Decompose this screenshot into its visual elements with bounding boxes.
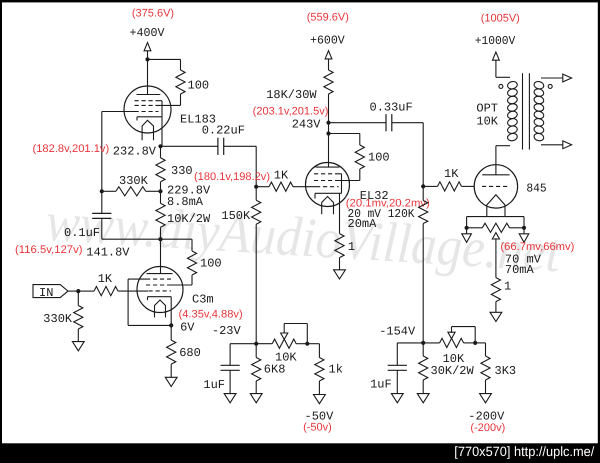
node 229.8V bbox=[158, 189, 162, 193]
svg-text:1uF: 1uF bbox=[370, 378, 392, 392]
svg-text:20mA: 20mA bbox=[348, 217, 378, 231]
transformer OPT primary winding bbox=[496, 77, 518, 145]
label 1K (845 grid) bbox=[444, 167, 459, 181]
wire to R100c bbox=[329, 134, 360, 146]
label (-50v) bbox=[303, 422, 332, 434]
svg-text:1K: 1K bbox=[444, 167, 459, 181]
wire +400V down bbox=[147, 51, 149, 60]
wire +1000V down bbox=[495, 60, 497, 77]
tube 845 envelope bbox=[474, 165, 517, 208]
power +1000V arrow bbox=[493, 52, 500, 60]
capacitor 1uF left bbox=[221, 365, 240, 393]
tube C3m g3 tie to cathode bbox=[128, 279, 171, 325]
power +600V arrow bbox=[325, 51, 332, 59]
svg-text:70mA: 70mA bbox=[505, 263, 535, 277]
resistor 3K3 bbox=[475, 343, 490, 394]
label 1K (input) bbox=[98, 272, 113, 286]
wire 243V to 0.33uF bbox=[329, 122, 387, 124]
label 330 bbox=[171, 164, 193, 178]
svg-text:1: 1 bbox=[348, 240, 355, 254]
tube 845 plate bbox=[482, 174, 509, 176]
potentiometer 10K bias left bbox=[256, 339, 307, 348]
resistor 1 845 cathode bbox=[491, 278, 500, 313]
label 6V bbox=[180, 320, 195, 334]
potentiometer 10K bias right bbox=[423, 338, 475, 347]
tube EL32 grid g3 bbox=[314, 173, 342, 175]
tube EL32 grid g2 bbox=[314, 180, 339, 182]
svg-text:(4.35v,4.88v): (4.35v,4.88v) bbox=[179, 308, 243, 320]
label 845 bbox=[526, 182, 546, 196]
tube EL32 cathode bbox=[315, 193, 342, 198]
svg-text:(-50v): (-50v) bbox=[303, 422, 332, 434]
svg-text:(203.1v,201.5v): (203.1v,201.5v) bbox=[253, 105, 329, 117]
ground 1k bbox=[314, 395, 326, 404]
label 10K (OPT) bbox=[476, 115, 498, 129]
svg-text:1: 1 bbox=[504, 280, 511, 294]
wire IN to node bbox=[68, 290, 78, 292]
label 0.22uF bbox=[202, 124, 245, 138]
label 10K (right pot) bbox=[443, 352, 465, 366]
svg-text:845: 845 bbox=[526, 182, 546, 196]
ground 30K/2W bbox=[417, 394, 429, 403]
svg-text:6K8: 6K8 bbox=[264, 363, 286, 377]
label 1 (845 cathode) bbox=[504, 280, 511, 294]
label (66.7mv,66mv) bbox=[500, 241, 574, 253]
tube EL32 envelope bbox=[306, 163, 350, 207]
wire 0.33uF to 845 grid rail bbox=[392, 123, 423, 187]
label 1 (EL32 cathode) bbox=[348, 240, 355, 254]
tube EL183 grid g1 bbox=[135, 111, 159, 113]
label 10K/2W bbox=[167, 212, 211, 226]
output arrow top bbox=[563, 74, 572, 82]
label +400V bbox=[130, 26, 166, 40]
footer black bar bbox=[0, 443, 600, 463]
svg-text:232.8V: 232.8V bbox=[113, 144, 157, 158]
svg-text:(182.8v,201.1v): (182.8v,201.1v) bbox=[33, 143, 110, 155]
node EL32 screen junction bbox=[326, 131, 330, 135]
label -23V bbox=[212, 324, 242, 338]
svg-text:141.8V: 141.8V bbox=[86, 245, 130, 259]
svg-text:-23V: -23V bbox=[212, 324, 242, 338]
node +400V junction bbox=[145, 57, 149, 61]
tube EL32 g3-cathode tie bbox=[341, 174, 343, 194]
wire EL183 grid to rail bbox=[102, 111, 136, 113]
svg-text:100: 100 bbox=[200, 257, 222, 271]
resistor 150K bbox=[252, 187, 261, 225]
label 100 (EL32 screen) bbox=[368, 151, 390, 165]
wire EL32 cathode down bbox=[339, 193, 341, 233]
tube EL183 cathode bbox=[137, 117, 162, 121]
svg-text:(1005V): (1005V) bbox=[481, 12, 520, 24]
connector IN bbox=[33, 285, 68, 298]
border frame top bbox=[0, 0, 600, 2]
wire EL183 plate lead bbox=[147, 59, 149, 94]
label 330K (input) bbox=[43, 312, 73, 326]
tube C3m cathode bbox=[148, 297, 172, 301]
svg-text:0.33uF: 0.33uF bbox=[370, 101, 413, 115]
label 1uF (right) bbox=[370, 378, 392, 392]
svg-text:8.8mA: 8.8mA bbox=[167, 195, 204, 209]
capacitor 0.33uF bbox=[386, 114, 392, 131]
tube C3m envelope bbox=[137, 267, 183, 313]
resistor 30K/2W bbox=[419, 343, 428, 394]
svg-text:100: 100 bbox=[368, 151, 390, 165]
svg-text:0.22uF: 0.22uF bbox=[202, 124, 245, 138]
label (180.1v,198.2v) bbox=[194, 171, 270, 183]
label 1k bbox=[329, 363, 343, 377]
wire +400V to R100a bbox=[148, 59, 181, 70]
svg-text:3K3: 3K3 bbox=[495, 364, 517, 378]
tube EL183 envelope bbox=[124, 86, 171, 133]
node filament left bbox=[465, 226, 469, 230]
label (375.6V) bbox=[132, 8, 174, 20]
label 20 mV 120K bbox=[348, 207, 416, 221]
svg-text:(559.6V): (559.6V) bbox=[307, 12, 349, 24]
label IN bbox=[39, 286, 53, 300]
label 680 bbox=[179, 346, 201, 360]
resistor 1K input bbox=[78, 287, 148, 296]
label EL183 bbox=[180, 112, 216, 126]
svg-text:30K/2W: 30K/2W bbox=[431, 364, 475, 378]
ground input bbox=[72, 342, 84, 351]
svg-text:10K: 10K bbox=[443, 352, 465, 366]
capacitor 1uF right bbox=[388, 365, 407, 393]
transformer OPT secondary winding bbox=[533, 78, 563, 145]
label 0.1uF bbox=[64, 226, 100, 240]
svg-text:1K: 1K bbox=[98, 272, 113, 286]
svg-text:-154V: -154V bbox=[379, 325, 416, 339]
wire 0.1uF to plate node bbox=[102, 238, 161, 240]
svg-text:+1000V: +1000V bbox=[475, 34, 516, 48]
watermark www.diyAudioVillage.net bbox=[44, 191, 563, 284]
label 18K/30W bbox=[266, 88, 317, 102]
node pot left out bbox=[305, 342, 309, 346]
label 8.8mA bbox=[167, 195, 204, 209]
svg-text:+400V: +400V bbox=[130, 26, 166, 40]
power +400V arrow bbox=[144, 43, 151, 51]
wire EL183 cathode down bbox=[161, 117, 163, 147]
wire 120K to -154V node bbox=[422, 224, 424, 343]
ground EL32 cathode bbox=[334, 270, 346, 279]
resistor 1 EL32 cathode bbox=[335, 234, 344, 270]
wire 18K to plate bbox=[328, 94, 330, 167]
tube EL183 grid g2 bbox=[135, 104, 159, 106]
resistor 330 bbox=[156, 146, 165, 191]
svg-text:330K: 330K bbox=[43, 312, 73, 326]
svg-text:[770x570] http://uplc.me/: [770x570] http://uplc.me/ bbox=[454, 444, 594, 459]
wire 232.8V to cap bbox=[161, 145, 218, 147]
label +1000V bbox=[475, 34, 516, 48]
wire -154V to 1uF bbox=[397, 343, 423, 365]
svg-text:OPT: OPT bbox=[476, 102, 498, 116]
label (-200v) bbox=[470, 422, 505, 434]
label 243V bbox=[292, 117, 322, 131]
label 30K/2W bbox=[431, 364, 475, 378]
wire filament bus bbox=[467, 217, 524, 228]
label (182.8v,201.1v) bbox=[33, 143, 110, 155]
node 232.8V bbox=[158, 144, 162, 148]
footer caption text bbox=[454, 444, 594, 459]
tube EL183 g3-cathode tie bbox=[161, 101, 163, 117]
tube EL183 plate bbox=[137, 94, 161, 96]
svg-text:(375.6V): (375.6V) bbox=[132, 8, 174, 20]
wire OPT to 845 plate bbox=[495, 146, 497, 175]
filament supply arrow right bbox=[519, 228, 529, 243]
label 141.8V bbox=[86, 245, 130, 259]
tube 845 grid bbox=[482, 185, 510, 187]
label (116.5v,127v) bbox=[15, 244, 83, 256]
capacitor 0.22uF bbox=[218, 138, 224, 155]
label 330K (feedback) bbox=[119, 174, 149, 188]
transformer OPT phase dot primary bbox=[499, 84, 503, 88]
wire cap to grid node bbox=[224, 145, 257, 147]
svg-text:(116.5v,127v): (116.5v,127v) bbox=[15, 244, 83, 256]
label -200V bbox=[468, 409, 505, 423]
tube C3m plate bbox=[147, 273, 173, 275]
tube EL32 plate bbox=[316, 166, 340, 168]
svg-text:10K/2W: 10K/2W bbox=[167, 212, 211, 226]
border frame left bbox=[0, 0, 2, 463]
svg-text:680: 680 bbox=[179, 346, 201, 360]
capacitor 0.1uF bbox=[92, 191, 111, 239]
node -154V bbox=[421, 341, 425, 345]
pot hum wiper arrow bbox=[492, 233, 499, 278]
label 150K bbox=[221, 209, 251, 223]
tube EL32 grid g1 bbox=[316, 186, 339, 188]
wire -23V to 1uF bbox=[230, 344, 256, 366]
svg-text:6V: 6V bbox=[180, 320, 195, 334]
resistor 330K feedback bbox=[102, 187, 161, 196]
wire C3m cathode down bbox=[170, 297, 172, 326]
resistor 330K input bbox=[74, 291, 83, 342]
ground 1uF left bbox=[224, 394, 236, 403]
wire plate node to R100b bbox=[161, 239, 193, 251]
label OPT bbox=[476, 102, 498, 116]
label 100 (C3m screen) bbox=[200, 257, 222, 271]
svg-text:1uF: 1uF bbox=[203, 378, 225, 392]
ground 3K3 bbox=[480, 394, 492, 403]
svg-text:330: 330 bbox=[171, 164, 193, 178]
label (4.35v,4.88v) bbox=[179, 308, 243, 320]
svg-text:(180.1v,198.2v): (180.1v,198.2v) bbox=[194, 171, 270, 183]
ground 845 cathode bbox=[490, 312, 502, 321]
tube EL32 heater bbox=[322, 197, 334, 215]
svg-text:10K: 10K bbox=[476, 115, 498, 129]
node filament right bbox=[522, 226, 526, 230]
label 232.8V bbox=[113, 144, 157, 158]
label (1005V) bbox=[481, 12, 520, 24]
label -50V bbox=[305, 410, 335, 424]
resistor 1k bleeder bbox=[307, 344, 324, 395]
node 243V cap junction bbox=[326, 121, 330, 125]
wire 150K to -23V node bbox=[255, 224, 257, 344]
ground 1uF right bbox=[391, 394, 403, 403]
transformer OPT phase dot secondary bbox=[548, 84, 552, 88]
label 3K3 bbox=[495, 364, 517, 378]
label (20.1mv,20.2mv) bbox=[346, 197, 430, 209]
ground 6K8 bbox=[250, 394, 262, 403]
resistor R100c (100) EL32 screen bbox=[339, 145, 365, 181]
label +600V bbox=[310, 33, 345, 47]
svg-text:+600V: +600V bbox=[310, 33, 345, 47]
node pot right out bbox=[473, 341, 477, 345]
wire +600V down bbox=[328, 59, 330, 70]
resistor 10K/2W bbox=[156, 191, 165, 239]
svg-text:18K/30W: 18K/30W bbox=[266, 88, 317, 102]
tube 845 filament bbox=[487, 195, 505, 217]
label (559.6V) bbox=[307, 12, 349, 24]
label 70mA bbox=[505, 263, 535, 277]
resistor R100b (100) C3m screen bbox=[171, 251, 197, 285]
tube EL183 grid g3 bbox=[135, 100, 163, 102]
label 0.33uF bbox=[370, 101, 413, 115]
pot 10K right wiper bbox=[448, 327, 475, 343]
pot 10K left wiper bbox=[281, 324, 308, 344]
resistor 6K8 bbox=[252, 344, 261, 394]
resistor 1K EL32 grid bbox=[256, 182, 316, 191]
resistor 680 bbox=[167, 325, 176, 377]
svg-text:IN: IN bbox=[39, 286, 53, 300]
node C3m plate bbox=[158, 237, 162, 241]
output arrow bottom bbox=[563, 141, 572, 149]
svg-text:100: 100 bbox=[188, 79, 210, 93]
wire C3m plate lead bbox=[160, 239, 162, 273]
ground C3m cathode bbox=[165, 377, 177, 386]
label 6K8 bbox=[264, 363, 286, 377]
node EL32 grid bbox=[254, 185, 258, 189]
node input bbox=[76, 289, 80, 293]
border frame right bbox=[598, 0, 600, 463]
label 1uF (left) bbox=[203, 378, 225, 392]
label 100 (EL183 screen) bbox=[188, 79, 210, 93]
resistor R100a (100) EL183 screen bbox=[176, 70, 185, 94]
wire R100a to g2 bbox=[159, 94, 181, 105]
tube C3m heater bbox=[155, 300, 166, 317]
svg-text:10K: 10K bbox=[275, 350, 297, 364]
node 845 grid bbox=[421, 184, 425, 188]
label EL32 bbox=[360, 189, 389, 203]
node -23V bbox=[254, 342, 258, 346]
svg-text:(-200v): (-200v) bbox=[470, 422, 505, 434]
label 229.8V bbox=[167, 184, 211, 198]
label 1K (EL32 grid) bbox=[274, 169, 289, 183]
svg-text:330K: 330K bbox=[119, 174, 149, 188]
transformer OPT core bbox=[523, 73, 530, 149]
svg-text:243V: 243V bbox=[292, 117, 322, 131]
svg-text:1k: 1k bbox=[329, 363, 343, 377]
tube EL183 heater bbox=[142, 120, 153, 140]
svg-text:0.1uF: 0.1uF bbox=[64, 226, 100, 240]
resistor 120K bbox=[419, 186, 428, 223]
label 20mA bbox=[348, 217, 378, 231]
label C3m bbox=[192, 293, 214, 307]
svg-text:(66.7mv,66mv): (66.7mv,66mv) bbox=[500, 241, 574, 253]
resistor 1K 845 grid bbox=[423, 182, 474, 191]
potentiometer hum balance bbox=[467, 223, 524, 232]
label 70 mV bbox=[505, 253, 542, 267]
wire grid rail down bbox=[101, 112, 103, 192]
svg-text:C3m: C3m bbox=[192, 293, 214, 307]
resistor 18K/30W bbox=[324, 70, 333, 94]
svg-text:150K: 150K bbox=[221, 209, 251, 223]
filament supply arrow left bbox=[462, 228, 472, 243]
wire 0.22uF down to grid node bbox=[255, 146, 257, 186]
svg-text:1K: 1K bbox=[274, 169, 289, 183]
label -154V bbox=[379, 325, 416, 339]
node grid rail 330K bbox=[100, 189, 104, 193]
label 10K (left pot) bbox=[275, 350, 297, 364]
label (203.1v,201.5v) bbox=[253, 105, 329, 117]
tube C3m grid g3 bbox=[128, 278, 171, 280]
node C3m cathode bbox=[169, 323, 173, 327]
tube C3m grid g2 bbox=[146, 284, 171, 286]
tube C3m grid g1 bbox=[149, 290, 172, 292]
